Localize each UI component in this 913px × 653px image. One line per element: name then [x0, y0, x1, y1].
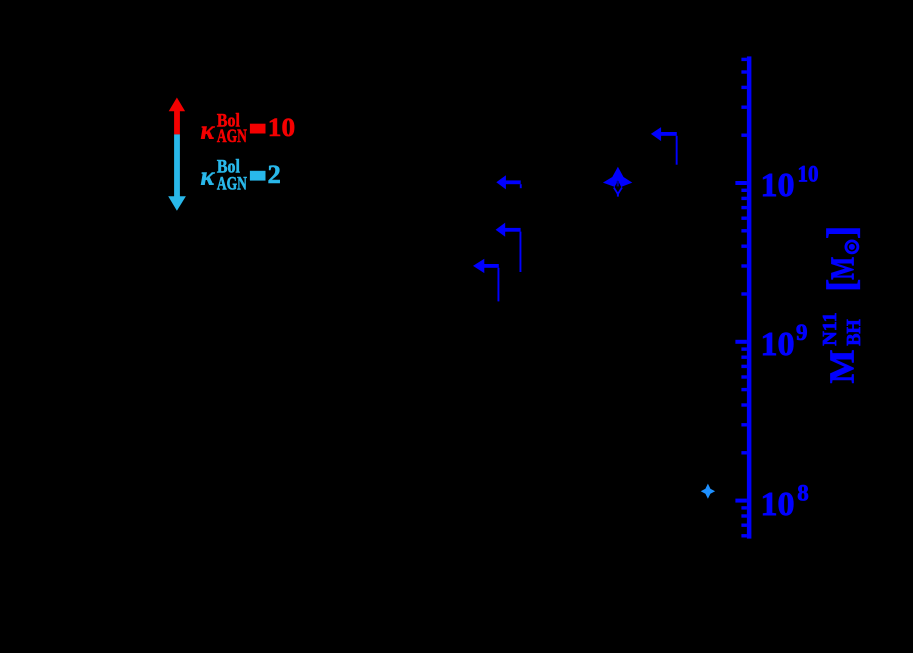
legend text kappa_AGN^Bol = 2 (cyan) [201, 156, 281, 194]
faint navy center line [617, 181, 619, 186]
black occulting notch over lower spike [612, 181, 624, 193]
svg-text:κ: κ [201, 161, 216, 190]
legend double arrow (red up / cyan down) [168, 98, 186, 211]
arrow A2 error line [520, 184, 522, 188]
svg-text:N11: N11 [819, 312, 841, 346]
cyan shaft [174, 134, 180, 196]
red shaft [174, 110, 180, 135]
arrow A4 tail [484, 264, 499, 268]
svg-text:κ: κ [201, 115, 216, 144]
svg-text:]: ] [819, 226, 864, 239]
svg-text:AGN: AGN [217, 126, 247, 147]
svg-text:BH: BH [843, 319, 865, 346]
svg-text:10: 10 [761, 326, 795, 363]
arrow A4 head [473, 259, 484, 273]
bright V tip of lower spike [614, 188, 622, 195]
tick label 10^9 [761, 320, 808, 363]
small light-blue 4-point star marker [701, 484, 715, 499]
major ticks 10^10, 10^9, 10^8 [735, 181, 747, 503]
arrow A3 error line [520, 232, 522, 272]
rotated y-axis label M_BH^N11 [Msun] [819, 226, 866, 384]
red up arrowhead [169, 98, 185, 112]
svg-text:2: 2 [268, 160, 281, 189]
arrow A2 head [496, 175, 506, 189]
svg-text:9: 9 [796, 320, 808, 345]
cyan down arrowhead [168, 196, 186, 211]
arrow A4 error line [498, 268, 500, 302]
svg-text:M: M [823, 350, 862, 384]
svg-text:8: 8 [797, 480, 809, 505]
svg-text:10: 10 [761, 486, 795, 523]
svg-text:10: 10 [268, 113, 295, 142]
data arrows (blue upper limits) [473, 127, 678, 301]
svg-text:M: M [825, 257, 862, 280]
arrow A1 error line [676, 136, 678, 165]
tick label 10^8 [761, 480, 809, 523]
right y-axis spine [747, 56, 752, 538]
arrow A1 head [651, 127, 661, 141]
legend text kappa_AGN^Bol = 10 (red) [201, 110, 296, 147]
arrow A2 tail [505, 180, 521, 184]
tick label 10^10 [761, 161, 819, 204]
svg-text:AGN: AGN [217, 174, 247, 195]
svg-text:10: 10 [761, 167, 795, 204]
big blue 4-point star marker [603, 167, 632, 197]
sun symbol circle [846, 241, 858, 253]
svg-text:10: 10 [798, 161, 819, 186]
minor log ticks [741, 58, 747, 538]
arrow A3 head [496, 223, 506, 237]
arrow A3 tail [504, 228, 520, 232]
arrow A1 tail [660, 132, 677, 136]
